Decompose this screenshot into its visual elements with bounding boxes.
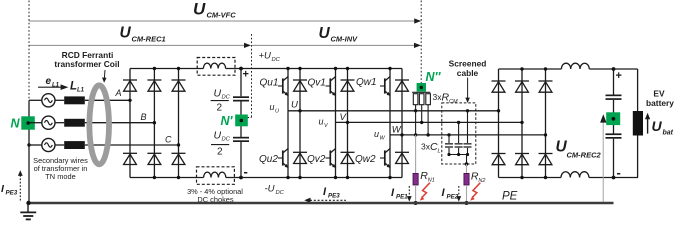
wire DC- bus REC1 to choke	[130, 177, 204, 179]
junction N bus PE	[26, 201, 30, 205]
svg-text:EV: EV	[653, 89, 665, 99]
junction bottom bus REC1 leg3	[177, 176, 180, 179]
rectifier REC2 leg 2 wire	[521, 69, 523, 178]
arrow I_PE2	[456, 186, 461, 202]
wire phase A from N bus	[29, 99, 42, 101]
battery EV	[633, 111, 643, 136]
label U_CM-REC1	[120, 25, 166, 44]
wire R_CM1 to phase U	[415, 105, 417, 111]
svg-text:N'': N''	[426, 70, 442, 84]
lightning R_N1	[420, 183, 430, 201]
label Secondary wires of transformer in TN mode	[33, 156, 88, 181]
wire phase C to rectifier	[85, 144, 179, 146]
arrow to screened cable box	[465, 78, 470, 103]
RCD Ferranti coil	[89, 85, 109, 164]
svg-text:u: u	[270, 102, 275, 112]
svg-text:Qv1: Qv1	[308, 78, 326, 89]
svg-text:DC: DC	[272, 57, 281, 63]
svg-text:U: U	[319, 25, 331, 42]
junction R_N1 tap phase W	[414, 133, 417, 136]
transistor Qw2	[380, 148, 391, 167]
junction R_N2 PE	[465, 201, 469, 205]
svg-text:CM-INV: CM-INV	[331, 35, 359, 44]
svg-text:W: W	[380, 136, 386, 142]
wire phase V output	[336, 121, 523, 123]
wire phase C from N bus	[29, 144, 42, 146]
wire DC+ bus choke to inverter	[226, 68, 402, 70]
AC source phase C	[42, 138, 55, 151]
dimension line U_CM-INV	[252, 43, 421, 48]
junctions inverter bottom bus	[286, 176, 391, 179]
capacitor REC2 DC upper	[606, 95, 622, 100]
wire phase B from N node	[29, 122, 42, 124]
wire REC2 DC- bus to inductor	[499, 177, 562, 179]
node midpoint REC2	[606, 112, 620, 125]
dimension line U_CM-VFC	[29, 18, 421, 23]
junction diode V phase	[346, 121, 349, 124]
rectifier REC1 leg 1 wire	[129, 69, 131, 178]
svg-text:-: -	[617, 165, 621, 180]
svg-text:bat: bat	[663, 130, 674, 137]
svg-text:U: U	[652, 118, 663, 134]
junction phase B leg2	[153, 121, 156, 124]
wire capacitor lower to DC-	[613, 139, 615, 178]
diode REC2 lower leg1	[492, 154, 506, 165]
wire capacitor lower to DC- bus	[240, 142, 242, 178]
inductor REC2 DC+	[561, 63, 589, 69]
svg-text:DC: DC	[222, 137, 231, 143]
svg-text:-: -	[244, 164, 248, 179]
inductor REC2 DC-	[561, 172, 589, 178]
diode REC1 upper leg2	[147, 80, 161, 91]
label 3xC_L	[421, 141, 441, 155]
dashed reference line at node N	[28, 1, 30, 101]
wire phase C source to choke	[55, 144, 64, 146]
svg-text:Qv2: Qv2	[307, 154, 326, 165]
junctions REC2 bottom bus	[520, 176, 615, 180]
svg-text:C: C	[165, 135, 172, 145]
wire battery positive lead	[637, 69, 639, 111]
svg-text:e: e	[46, 76, 52, 87]
wire REC2 DC+ bus to inductor	[499, 68, 562, 70]
wire battery negative lead	[637, 136, 639, 178]
arrow to coil	[102, 70, 107, 83]
wire DC link capacitor string upper	[240, 69, 242, 97]
diode freewheel upper W	[395, 80, 409, 91]
svg-text:PE: PE	[502, 191, 518, 203]
wire C_L2 stub	[458, 122, 460, 143]
arrow I_PE3 right	[304, 198, 346, 203]
wire C_L3 to common	[467, 148, 469, 155]
wire PE	[28, 202, 614, 205]
capacitor REC2 DC lower	[606, 133, 622, 138]
label +U_DC	[259, 51, 281, 64]
svg-text:L1: L1	[77, 88, 85, 94]
junction bottom bus REC1 leg2	[153, 176, 156, 179]
junction top bus REC1 leg2	[153, 67, 156, 70]
label R_N1	[420, 170, 435, 184]
label L_L1	[70, 81, 85, 94]
dashed reference line at node N''	[420, 1, 422, 84]
wire inverter leg V lower diode	[347, 122, 349, 177]
label R_N2	[471, 171, 486, 185]
dashed box DC choke top	[197, 58, 235, 76]
svg-text:U: U	[291, 100, 298, 111]
wire inverter leg U lower diode	[299, 111, 301, 178]
node N'	[235, 115, 248, 127]
svg-text:CM: CM	[449, 99, 458, 105]
junctions C_L common	[447, 153, 469, 156]
wire R_N2 to PE	[466, 185, 468, 202]
wire C_L3 stub	[467, 111, 469, 143]
transistor Qv2	[326, 148, 337, 167]
svg-text:DC: DC	[276, 190, 285, 196]
svg-text:U: U	[214, 88, 222, 100]
diode freewheel upper V	[341, 80, 355, 91]
junctions REC2 top bus	[520, 67, 615, 71]
capacitor U_DC/2 upper	[233, 96, 249, 101]
diode REC1 lower leg1	[123, 153, 137, 164]
junction top bus REC1 leg3	[177, 67, 180, 70]
diode freewheel lower V	[341, 152, 355, 163]
wire C_L common to screen	[466, 155, 468, 165]
svg-text:+: +	[243, 69, 249, 81]
svg-text:battery: battery	[646, 98, 674, 108]
junction C_L1 phase W	[447, 133, 450, 136]
junction cable screen	[465, 162, 469, 166]
lightning R_N2	[470, 183, 480, 201]
resistor R_CM1	[413, 94, 418, 105]
transistor Qu1	[278, 76, 289, 95]
capacitor C_L1	[445, 143, 453, 148]
wire inverter leg W upper diode	[401, 69, 403, 135]
dashed reference line at node N'	[248, 34, 252, 118]
wire REC2 DC- inductor to battery	[589, 177, 638, 179]
diode REC1 upper leg3	[172, 80, 186, 91]
wire C_L2 to common	[458, 148, 460, 155]
junction phase W REC2	[544, 133, 547, 136]
junction DC- bus at capacitor string	[239, 176, 243, 180]
ground	[20, 203, 36, 219]
arrow I_PE3 left	[18, 170, 23, 200]
svg-text:cable: cable	[457, 68, 479, 78]
wire N bus	[28, 100, 30, 203]
label U_CM-INV	[319, 25, 359, 44]
svg-text:u: u	[374, 129, 379, 139]
svg-text:CM-REC1: CM-REC1	[132, 35, 166, 44]
resistor R_CM2	[419, 94, 424, 105]
svg-text:Qw2: Qw2	[355, 154, 376, 165]
capacitor U_DC/2 lower	[233, 137, 249, 142]
svg-text:Qu2: Qu2	[259, 154, 278, 165]
svg-text:DC: DC	[222, 95, 231, 101]
screened cable dashed box	[442, 103, 476, 164]
transistor Qw1	[380, 76, 391, 95]
DC choke top coil	[203, 63, 225, 68]
diode freewheel lower W	[395, 152, 409, 163]
svg-text:U: U	[120, 25, 132, 42]
svg-text:L: L	[70, 81, 77, 93]
junction C_L2 phase V	[457, 121, 460, 124]
inductor phase C	[64, 141, 85, 149]
svg-text:-U: -U	[265, 184, 275, 195]
diode REC1 upper leg1	[123, 80, 137, 91]
junction R_CM2 phase V	[420, 121, 423, 124]
rectifier REC2 leg 3 wire	[545, 69, 547, 178]
svg-text:U: U	[193, 0, 206, 19]
label RCD Ferranti transformer Coil	[54, 50, 119, 69]
junction C_L3 phase U	[466, 109, 469, 112]
diode freewheel lower U	[293, 152, 307, 163]
junctions inverter top bus	[286, 67, 391, 70]
arrow e_L1	[38, 84, 68, 90]
diode REC2 upper leg1	[492, 81, 506, 92]
svg-text:PE3: PE3	[6, 190, 18, 197]
label u_U	[270, 102, 280, 115]
rectifier REC1 leg 3 wire	[178, 69, 180, 178]
svg-text:Screened: Screened	[449, 59, 487, 69]
wire R_N1 to PE	[415, 185, 417, 202]
diode REC2 upper leg2	[515, 81, 529, 92]
wire R_CM3 to phase W	[427, 105, 429, 135]
AC source phase B	[42, 116, 55, 129]
resistor R_CM3	[426, 94, 431, 105]
junction phase U REC2	[497, 109, 500, 112]
svg-text:A: A	[115, 88, 122, 98]
svg-text:N1: N1	[428, 178, 435, 184]
arrow U_bat	[645, 113, 650, 134]
label U_CM-VFC	[193, 0, 236, 20]
transistor Qu2	[278, 148, 289, 167]
label Screened cable	[449, 59, 487, 79]
svg-text:2: 2	[217, 103, 223, 114]
label u_W	[374, 129, 386, 142]
DC choke bottom coil	[204, 172, 226, 177]
node N''	[417, 83, 426, 92]
AC source phase A	[42, 94, 55, 107]
svg-text:W: W	[392, 125, 402, 136]
wire phase U to W tap for R_N1	[415, 111, 417, 135]
wire screen to resistor R_N2	[466, 164, 468, 173]
resistor R_N1	[413, 173, 418, 185]
svg-text:U: U	[275, 109, 279, 115]
wire phase W output	[390, 134, 546, 136]
label e_L1	[46, 76, 60, 89]
wire REC2 DC capacitor string upper	[613, 69, 615, 95]
label U_CM-REC2	[556, 139, 602, 160]
wire inverter leg W lower IGBT	[389, 135, 391, 178]
label U_DC/2 lower	[211, 130, 231, 158]
inductor phase B	[64, 119, 85, 127]
svg-text:B: B	[141, 112, 147, 122]
wire DC- bus choke to inverter	[226, 177, 402, 179]
transistor Qv1	[326, 76, 337, 95]
junction phase A leg1	[128, 99, 131, 102]
dashed box DC choke bottom	[197, 167, 235, 185]
svg-text:+U: +U	[259, 51, 272, 62]
wire W tap down to resistor R_N1	[415, 135, 417, 174]
svg-text:+: +	[616, 70, 622, 82]
wire R_CM2 to phase V	[421, 105, 423, 123]
wire DC+ bus REC1 to choke	[130, 68, 203, 70]
label U_bat	[652, 118, 674, 137]
wire inverter leg U upper diode	[299, 69, 301, 111]
svg-text:N': N'	[221, 114, 234, 128]
wire C_L1 to common	[448, 148, 450, 155]
junction R_N1 PE	[414, 201, 418, 205]
wire REC2 DC+ inductor to battery	[589, 68, 637, 70]
svg-text:N: N	[11, 117, 21, 131]
wire inverter leg V lower IGBT	[335, 122, 337, 177]
wire inverter leg V upper IGBT	[335, 69, 337, 123]
diode REC2 lower leg2	[515, 154, 529, 165]
junction R_CM3 phase W	[426, 133, 429, 136]
diode REC2 lower leg3	[539, 154, 553, 165]
wire capacitor to N'	[240, 102, 242, 138]
label EV battery	[646, 89, 674, 109]
junction DC+ bus at capacitor string	[239, 67, 243, 71]
svg-text:U: U	[214, 130, 222, 142]
diode REC1 lower leg2	[147, 153, 161, 164]
label I_PE3 right	[323, 186, 340, 200]
junction diode U phase	[298, 109, 301, 112]
wire phase A to rectifier	[85, 99, 130, 101]
capacitor C_L2	[455, 143, 463, 148]
wire C_L common bus	[449, 154, 468, 156]
svg-text:PE1: PE1	[396, 194, 408, 201]
node N	[21, 116, 35, 129]
arrow I_PE1	[407, 186, 412, 202]
rectifier REC1 leg 2 wire	[153, 69, 155, 178]
resistor R_N2	[464, 173, 469, 185]
wire C_L1 stub	[448, 135, 450, 143]
svg-text:L: L	[438, 149, 441, 155]
svg-text:2: 2	[217, 147, 223, 158]
diode freewheel upper U	[293, 80, 307, 91]
svg-text:Qw1: Qw1	[356, 77, 377, 88]
junction R_CM1 phase U	[414, 109, 417, 112]
wire phase B source to choke	[55, 122, 64, 124]
wire inverter leg V upper diode	[347, 69, 349, 123]
svg-text:Qu1: Qu1	[260, 78, 279, 89]
diode REC2 upper leg3	[539, 81, 553, 92]
inductor L_L1 phase A	[64, 96, 85, 104]
label I_PE1	[391, 187, 408, 201]
label I_PE2	[442, 187, 459, 201]
svg-text:u: u	[319, 117, 324, 127]
capacitor C_L3	[464, 143, 472, 148]
wire inverter leg U upper IGBT	[287, 69, 289, 111]
junction phase C leg3	[177, 143, 180, 146]
svg-text:CM-REC2: CM-REC2	[567, 151, 602, 160]
wire capacitor to midpoint	[613, 100, 615, 135]
svg-text:CM-VFC: CM-VFC	[207, 11, 237, 20]
svg-text:transformer Coil: transformer Coil	[54, 59, 119, 69]
label u_V	[319, 117, 330, 130]
wire inverter leg U lower IGBT	[287, 111, 289, 178]
wire inverter leg W lower diode	[401, 135, 403, 178]
wire phase U output	[288, 110, 499, 112]
label I_PE3 left	[1, 183, 18, 197]
wire phase A source to choke	[55, 99, 64, 101]
svg-text:PE3: PE3	[328, 193, 340, 200]
dimension line U_CM-REC1	[29, 43, 251, 48]
wire R_CM common bus	[412, 91, 430, 93]
label 3xR_CM	[433, 92, 458, 106]
wire inverter leg W upper IGBT	[389, 69, 391, 135]
label U_DC/2 upper	[211, 88, 231, 114]
arrow U_CM-REC2 measurement	[600, 114, 606, 201]
wire phase B to rectifier	[85, 122, 155, 124]
label 3% - 4% optional DC chokes	[187, 187, 243, 204]
svg-text:TN mode: TN mode	[45, 172, 75, 181]
junction diode W phase	[400, 133, 403, 136]
diode REC1 lower leg3	[172, 153, 186, 164]
junction N bus phase C	[27, 143, 30, 146]
label -U_DC	[265, 184, 285, 197]
rectifier REC2 leg 1 wire	[498, 69, 500, 178]
junction phase V REC2	[520, 121, 523, 124]
